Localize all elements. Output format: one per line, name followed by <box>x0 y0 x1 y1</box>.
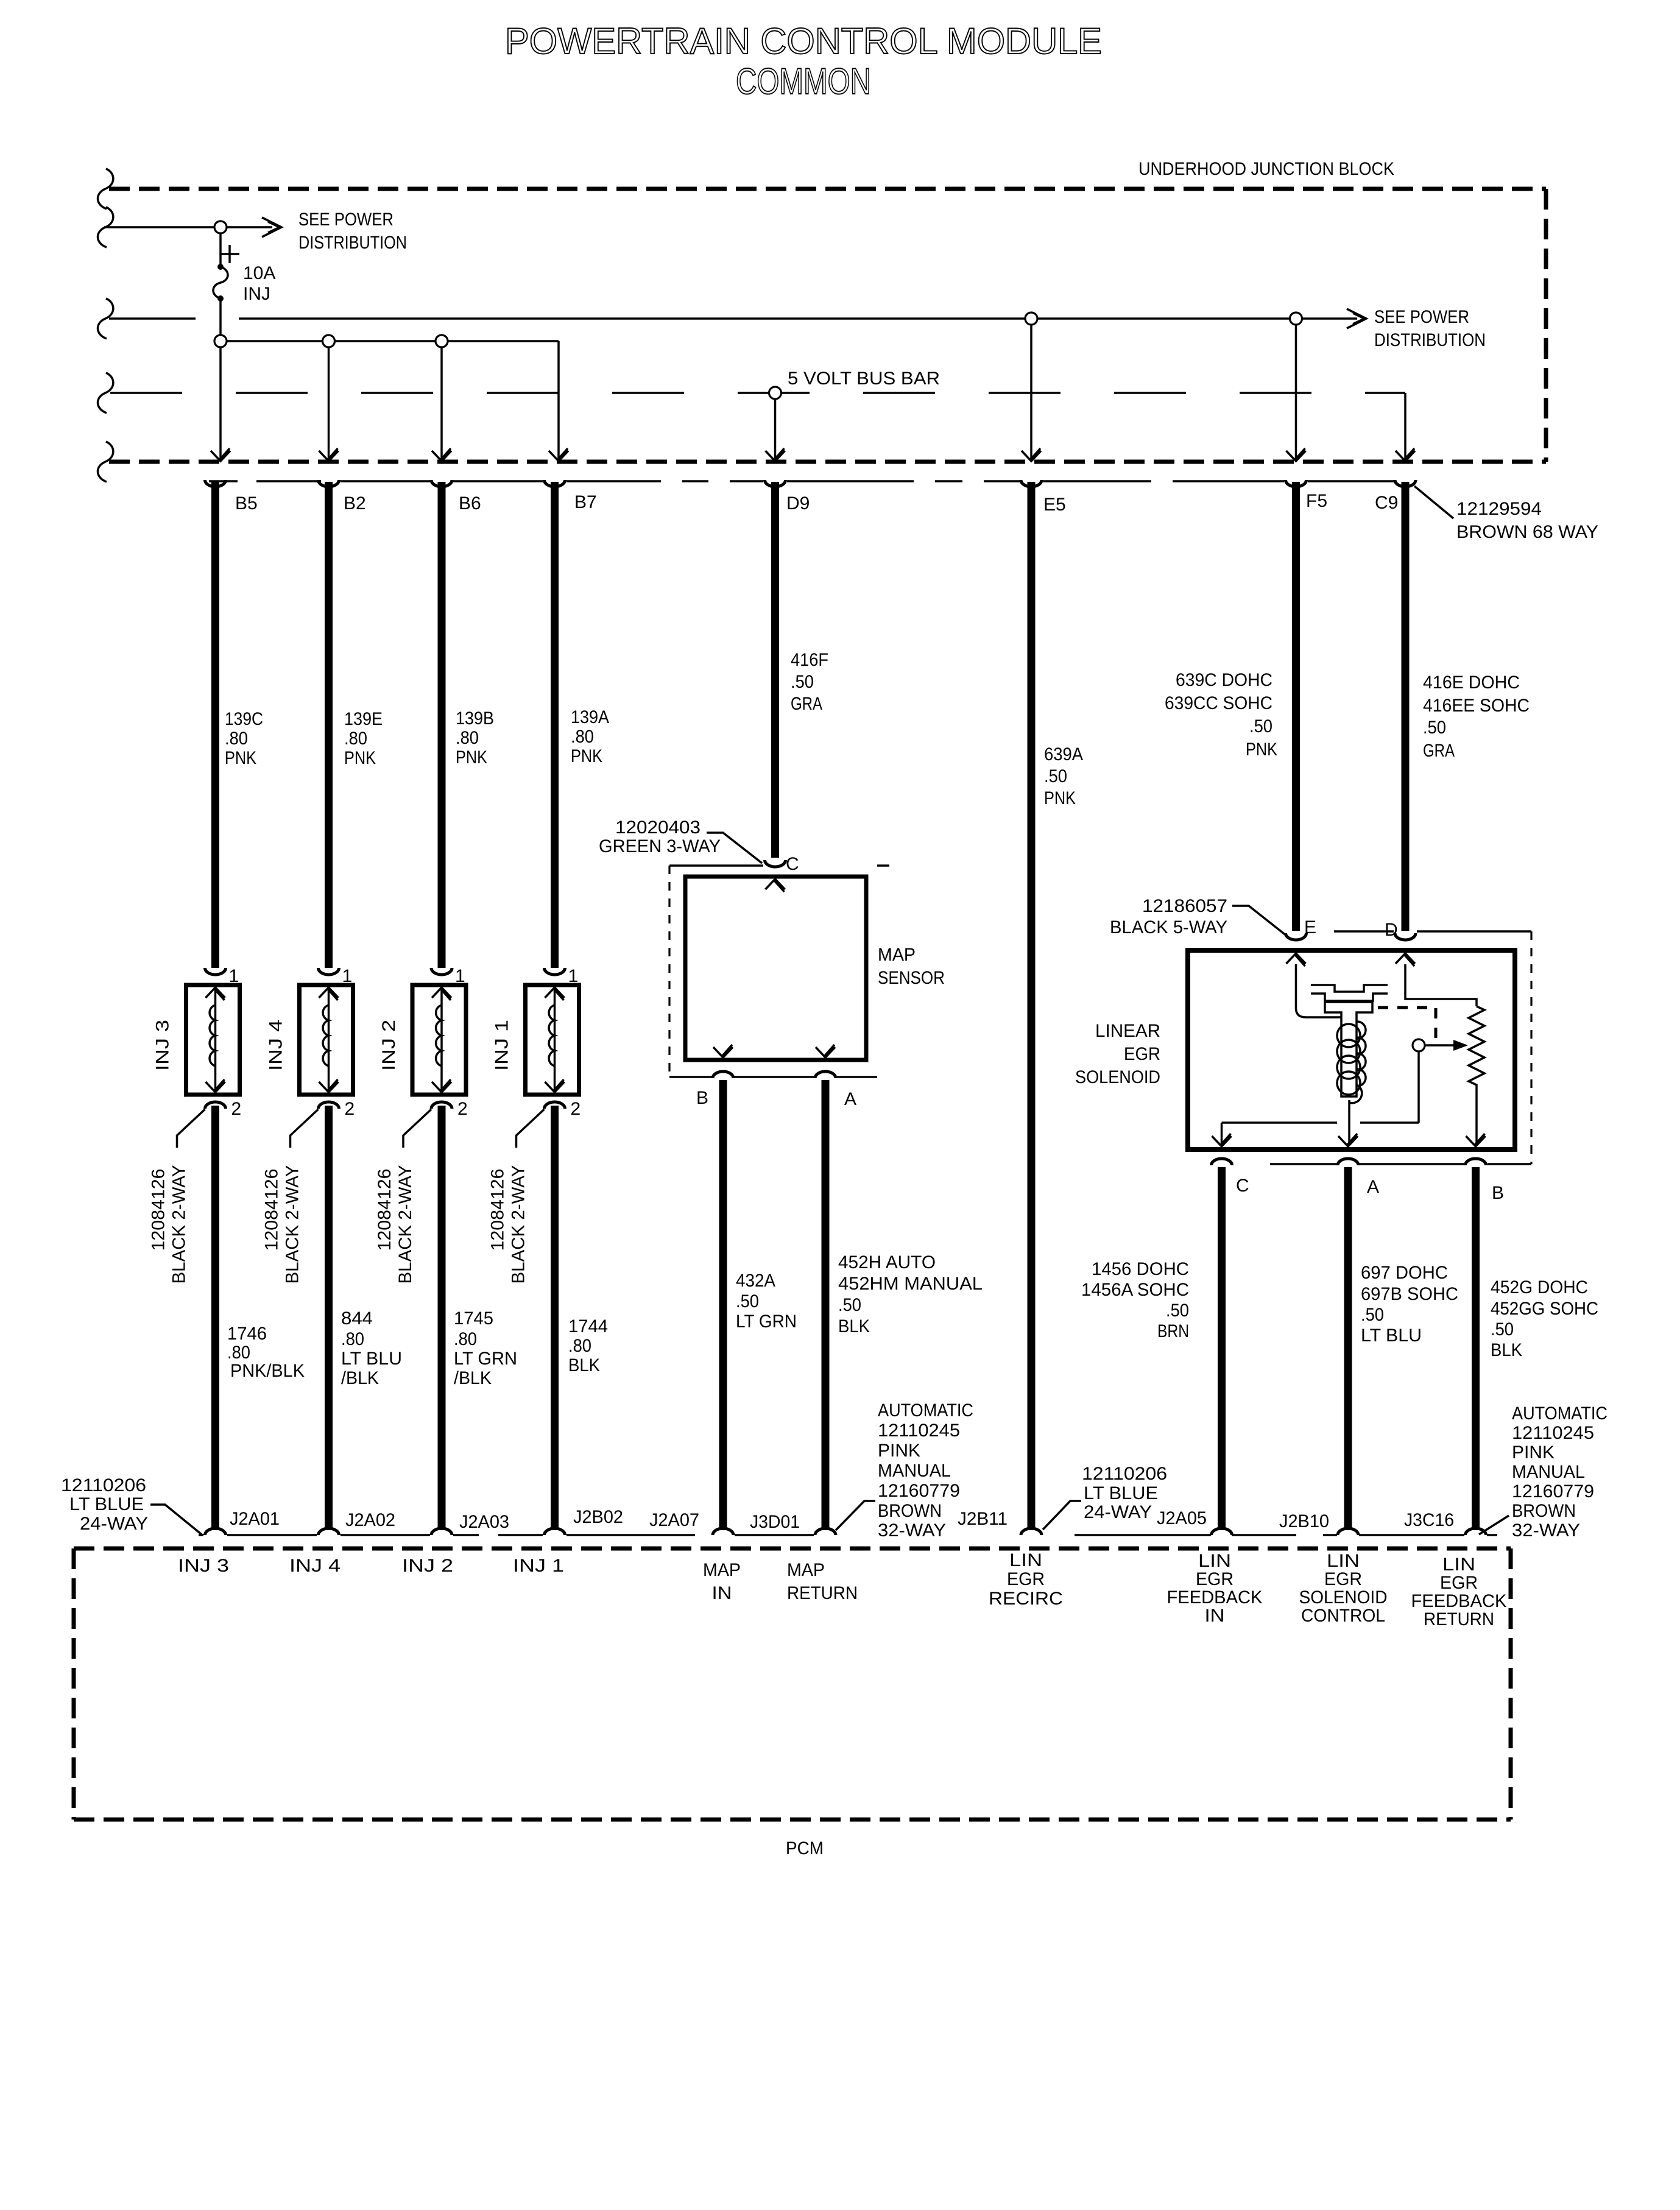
injector INJ 4 terminal 2 <box>319 1102 339 1109</box>
svg-text:416EE SOHC: 416EE SOHC <box>1423 696 1530 716</box>
junction node F5 <box>1290 312 1302 325</box>
leader 24-way connector left <box>150 1505 202 1534</box>
junction node fuse out <box>214 335 227 347</box>
EGR mechanical link dashed <box>1378 1008 1436 1039</box>
svg-text:LIN: LIN <box>1198 1551 1231 1571</box>
svg-text:.80: .80 <box>456 728 479 748</box>
wire INJ 2 to PCM <box>438 1106 446 1530</box>
svg-text:.50: .50 <box>736 1291 759 1312</box>
svg-text:INJ 1: INJ 1 <box>513 1556 564 1576</box>
svg-text:.50: .50 <box>1423 718 1446 738</box>
svg-text:12084126: 12084126 <box>262 1169 282 1251</box>
EGR pintle lower bar <box>1311 994 1388 1001</box>
leader 2-way connector INJ 1 <box>517 1109 545 1148</box>
arrow see power distribution left <box>262 217 281 237</box>
injector INJ 2 terminal 1 <box>431 968 452 975</box>
svg-text:/BLK: /BLK <box>341 1368 379 1388</box>
svg-text:.80: .80 <box>225 729 248 749</box>
leader 5-way connector EGR <box>1232 906 1286 936</box>
svg-text:AUTOMATIC: AUTOMATIC <box>878 1400 973 1421</box>
svg-text:139B: 139B <box>456 708 494 729</box>
injector INJ 1 body <box>526 985 579 1095</box>
EGR feedback wiper <box>1413 1039 1468 1123</box>
wire battery feed <box>104 226 215 228</box>
svg-text:EGR: EGR <box>1324 1569 1362 1589</box>
svg-text:32-WAY: 32-WAY <box>878 1520 946 1541</box>
wire 1456 EGR C to PCM <box>1218 1167 1226 1530</box>
PCM terminal MAP RETURN <box>815 1528 836 1535</box>
terminal B5 <box>205 480 226 487</box>
svg-text:2: 2 <box>457 1099 468 1119</box>
svg-text:RETURN: RETURN <box>1424 1609 1494 1629</box>
svg-text:.80: .80 <box>568 1336 591 1356</box>
terminal C9 <box>1395 480 1416 487</box>
svg-text:BLACK 2-WAY: BLACK 2-WAY <box>509 1165 529 1284</box>
wire D9 drop <box>774 399 777 461</box>
svg-text:697 DOHC: 697 DOHC <box>1361 1263 1448 1283</box>
svg-text:INJ 3: INJ 3 <box>178 1556 229 1576</box>
MAP sensor terminal B <box>713 1071 733 1078</box>
svg-text:F5: F5 <box>1306 491 1327 511</box>
svg-text:12020403: 12020403 <box>615 817 701 838</box>
svg-text:416F: 416F <box>791 650 828 670</box>
svg-text:E: E <box>1304 917 1316 937</box>
svg-text:LIN: LIN <box>1327 1551 1360 1571</box>
wire 139E B2 to INJ4 <box>325 482 333 968</box>
svg-text:452GG SOHC: 452GG SOHC <box>1491 1299 1598 1319</box>
wire 416E C9 to EGR D <box>1402 482 1410 931</box>
arrow see power distribution right <box>1347 309 1366 328</box>
svg-text:12129594: 12129594 <box>1456 499 1542 519</box>
wire break curl ignition bus <box>97 298 113 339</box>
EGR pin E arrow <box>1286 953 1306 964</box>
svg-text:INJ 1: INJ 1 <box>492 1020 512 1071</box>
EGR pintle valve body <box>1325 1002 1372 1096</box>
PCM terminal INJ3 <box>205 1528 226 1535</box>
svg-text:SENSOR: SENSOR <box>878 968 945 988</box>
arrow B5 drop into connector <box>211 451 230 461</box>
svg-text:639C DOHC: 639C DOHC <box>1176 670 1272 690</box>
svg-text:1746: 1746 <box>227 1324 267 1344</box>
MAP sensor pin A arrow <box>816 1047 835 1057</box>
wire 452G EGR B to PCM <box>1472 1167 1480 1530</box>
PCM connector face line <box>199 1534 1497 1536</box>
terminal F5 <box>1286 480 1307 487</box>
wire INJ 3 to PCM <box>211 1106 219 1530</box>
svg-text:24-WAY: 24-WAY <box>1084 1502 1152 1522</box>
svg-text:.50: .50 <box>1249 716 1272 736</box>
EGR terminal A <box>1338 1159 1358 1165</box>
wire ignition bus left segment <box>109 317 196 320</box>
svg-text:J2A02: J2A02 <box>345 1510 395 1530</box>
svg-text:UNDERHOOD JUNCTION BLOCK: UNDERHOOD JUNCTION BLOCK <box>1138 159 1394 179</box>
svg-text:PNK: PNK <box>571 746 602 766</box>
svg-text:.50: .50 <box>838 1295 861 1315</box>
wire break curl 5 volt bus <box>97 373 113 413</box>
injector INJ 3 terminal 2 <box>205 1102 226 1109</box>
injector INJ 4 internal element <box>328 989 330 1090</box>
svg-text:2: 2 <box>571 1099 581 1119</box>
junction node fuse top <box>214 221 227 233</box>
wire 432A MAP B to PCM <box>719 1080 727 1530</box>
svg-text:B2: B2 <box>344 493 366 514</box>
svg-text:RETURN: RETURN <box>787 1583 858 1603</box>
PCM terminal INJ4 <box>319 1528 339 1535</box>
wire 639A E5 to PCM <box>1028 482 1036 1530</box>
svg-text:SEE POWER: SEE POWER <box>298 210 394 230</box>
EGR terminal B <box>1466 1159 1486 1165</box>
svg-text:10A: 10A <box>243 263 275 283</box>
EGR feedback resistor <box>1469 1006 1484 1145</box>
EGR terminal C <box>1212 1159 1232 1165</box>
svg-text:GRA: GRA <box>1423 741 1455 761</box>
svg-text:12084126: 12084126 <box>149 1169 169 1251</box>
svg-text:432A: 432A <box>736 1271 775 1291</box>
arrow F5 drop into connector <box>1286 451 1306 461</box>
arrow B6 drop into connector <box>432 451 451 461</box>
wire F5 drop <box>1295 325 1297 461</box>
svg-text:452G DOHC: 452G DOHC <box>1491 1277 1588 1297</box>
EGR solenoid body <box>1188 950 1515 1149</box>
svg-text:GREEN 3-WAY: GREEN 3-WAY <box>599 836 721 856</box>
svg-text:12110206: 12110206 <box>61 1475 146 1495</box>
svg-text:INJ 4: INJ 4 <box>289 1556 341 1576</box>
svg-text:.50: .50 <box>791 672 814 692</box>
svg-text:D9: D9 <box>786 493 810 514</box>
MAP sensor pin C arrow <box>766 879 785 889</box>
svg-text:BROWN: BROWN <box>878 1501 942 1521</box>
svg-text:BRN: BRN <box>1157 1321 1189 1341</box>
svg-text:MAP: MAP <box>787 1560 825 1580</box>
MAP sensor body <box>685 877 866 1060</box>
svg-text:POWERTRAIN CONTROL MODULE: POWERTRAIN CONTROL MODULE <box>505 21 1102 62</box>
fuse 10A INJ <box>213 233 239 336</box>
junction node B2 <box>323 335 335 347</box>
svg-text:2: 2 <box>231 1099 242 1119</box>
svg-text:12160779: 12160779 <box>878 1481 960 1501</box>
svg-text:J2A03: J2A03 <box>459 1512 509 1532</box>
svg-text:J2A01: J2A01 <box>230 1509 280 1529</box>
svg-text:BLACK 2-WAY: BLACK 2-WAY <box>395 1165 415 1284</box>
svg-text:LT BLU: LT BLU <box>1361 1326 1422 1346</box>
terminal D9 <box>765 480 786 487</box>
MAP sensor pin B arrow <box>713 1047 733 1057</box>
svg-text:1456A SOHC: 1456A SOHC <box>1081 1280 1189 1300</box>
wire 139C B5 to INJ3 <box>211 482 219 968</box>
wire ignition bus right segment <box>239 317 1026 320</box>
svg-text:.80: .80 <box>227 1343 250 1363</box>
injector INJ 3 terminal 1 <box>205 968 226 975</box>
svg-text:LT GRN: LT GRN <box>454 1349 517 1369</box>
injector INJ 1 terminal 1 <box>545 968 565 975</box>
connector face line 68-way <box>209 480 1394 482</box>
injector INJ 3 internal element <box>214 989 217 1090</box>
wire break curl top dashed <box>97 169 113 209</box>
PCM terminal EGR RECIRC <box>1021 1528 1042 1535</box>
svg-text:.80: .80 <box>344 729 367 749</box>
svg-text:B: B <box>696 1088 708 1108</box>
svg-text:639A: 639A <box>1044 744 1083 764</box>
svg-text:12084126: 12084126 <box>488 1169 508 1251</box>
PCM terminal INJ1 <box>545 1528 565 1535</box>
svg-text:B: B <box>1492 1183 1504 1203</box>
svg-text:A: A <box>844 1089 856 1109</box>
svg-text:J2A07: J2A07 <box>649 1510 699 1530</box>
MAP sensor terminal C <box>765 860 786 867</box>
svg-text:MAP: MAP <box>878 945 916 965</box>
PCM terminal INJ2 <box>431 1528 452 1535</box>
arrow E5 drop into connector <box>1022 451 1041 461</box>
EGR pintle upper bar <box>1311 985 1388 992</box>
svg-text:EGR: EGR <box>1440 1573 1478 1593</box>
svg-text:639CC SOHC: 639CC SOHC <box>1165 693 1272 713</box>
terminal B2 <box>319 480 339 487</box>
wire B2 drop <box>328 347 330 461</box>
wire C9 drop <box>1404 393 1406 461</box>
svg-text:PNK: PNK <box>1044 788 1076 808</box>
svg-text:LIN: LIN <box>1009 1550 1042 1570</box>
svg-text:12110245: 12110245 <box>1512 1423 1594 1443</box>
svg-text:MAP: MAP <box>703 1560 741 1580</box>
svg-text:2: 2 <box>345 1099 355 1119</box>
svg-text:LIN: LIN <box>1442 1555 1475 1575</box>
svg-text:J2B02: J2B02 <box>573 1507 623 1527</box>
svg-text:697B SOHC: 697B SOHC <box>1361 1284 1458 1304</box>
svg-text:12110245: 12110245 <box>878 1421 960 1441</box>
svg-text:.80: .80 <box>454 1329 477 1349</box>
terminal B6 <box>431 480 452 487</box>
svg-text:COMMON: COMMON <box>736 61 871 102</box>
svg-text:EGR: EGR <box>1124 1044 1160 1064</box>
PCM terminal EGR FEEDBACK IN <box>1212 1528 1232 1535</box>
svg-text:FEEDBACK: FEEDBACK <box>1411 1591 1507 1611</box>
svg-text:.50: .50 <box>1361 1305 1384 1325</box>
leader 2-way connector INJ 2 <box>403 1109 431 1148</box>
svg-text:12084126: 12084126 <box>375 1169 395 1251</box>
arrow D9 drop into connector <box>766 451 785 461</box>
injector INJ 1 terminal 2 <box>545 1102 565 1109</box>
wire injector feed bus <box>227 340 559 342</box>
svg-text:139C: 139C <box>225 709 263 729</box>
EGR internal wire E to coil <box>1296 964 1341 1017</box>
EGR terminal E <box>1286 933 1307 940</box>
svg-text:D: D <box>1385 920 1398 940</box>
wire 416F D9 to MAP C <box>771 482 779 858</box>
svg-text:IN: IN <box>712 1583 732 1603</box>
wire B5 drop <box>219 347 222 461</box>
svg-text:GRA: GRA <box>791 694 822 714</box>
svg-text:INJ 4: INJ 4 <box>266 1020 286 1071</box>
svg-text:INJ 3: INJ 3 <box>153 1020 173 1071</box>
svg-text:BLACK 2-WAY: BLACK 2-WAY <box>283 1165 303 1284</box>
wire B7 drop <box>557 341 560 461</box>
injector INJ 1 internal element <box>554 989 556 1090</box>
svg-text:452HM MANUAL: 452HM MANUAL <box>838 1274 983 1294</box>
svg-text:LINEAR: LINEAR <box>1095 1021 1160 1041</box>
PCM terminal EGR SOL CONTROL <box>1338 1528 1358 1535</box>
svg-text:FEEDBACK: FEEDBACK <box>1167 1587 1263 1608</box>
svg-text:INJ 2: INJ 2 <box>379 1020 399 1071</box>
injector INJ 2 terminal 2 <box>431 1102 452 1109</box>
svg-text:.80: .80 <box>571 727 594 747</box>
svg-text:5 VOLT BUS BAR: 5 VOLT BUS BAR <box>788 369 940 389</box>
leader 3-way connector MAP <box>707 833 762 863</box>
svg-text:32-WAY: 32-WAY <box>1512 1520 1580 1541</box>
wire 639C F5 to EGR E <box>1292 482 1300 931</box>
wire 139B B6 to INJ2 <box>438 482 446 968</box>
svg-text:MANUAL: MANUAL <box>1512 1462 1585 1482</box>
svg-text:J3D01: J3D01 <box>750 1512 800 1532</box>
injector INJ 3 body <box>186 985 240 1095</box>
junction node D9 <box>769 387 782 399</box>
svg-text:PNK: PNK <box>456 747 487 768</box>
svg-text:1456 DOHC: 1456 DOHC <box>1092 1259 1189 1279</box>
svg-text:12186057: 12186057 <box>1142 896 1227 916</box>
svg-text:DISTRIBUTION: DISTRIBUTION <box>1374 330 1486 350</box>
leader 2-way connector INJ 4 <box>291 1109 319 1148</box>
arrow B7 drop into connector <box>549 451 568 461</box>
underhood junction block dashed box <box>109 189 1546 462</box>
svg-text:24-WAY: 24-WAY <box>80 1514 148 1534</box>
leader 32-way connector right <box>1479 1516 1509 1534</box>
svg-text:PNK/BLK: PNK/BLK <box>230 1361 305 1381</box>
svg-text:B7: B7 <box>574 492 597 512</box>
svg-text:IN: IN <box>1205 1606 1225 1626</box>
svg-text:RECIRC: RECIRC <box>989 1589 1063 1609</box>
svg-text:C: C <box>1236 1176 1249 1196</box>
svg-text:.50: .50 <box>1491 1319 1514 1340</box>
svg-text:PNK: PNK <box>1246 740 1277 760</box>
svg-text:BROWN: BROWN <box>1512 1501 1576 1521</box>
svg-text:1745: 1745 <box>454 1308 493 1329</box>
svg-text:INJ: INJ <box>243 284 270 304</box>
svg-text:C: C <box>786 854 799 874</box>
junction node E5 <box>1025 312 1037 325</box>
svg-text:BLACK 5-WAY: BLACK 5-WAY <box>1110 917 1227 937</box>
wire break curl bottom dashed <box>97 442 113 482</box>
svg-text:SOLENOID: SOLENOID <box>1075 1067 1160 1087</box>
wire B6 drop <box>440 347 443 461</box>
svg-text:DISTRIBUTION: DISTRIBUTION <box>298 233 407 253</box>
leader 24-way connector right <box>1043 1501 1081 1530</box>
svg-text:AUTOMATIC: AUTOMATIC <box>1512 1403 1608 1424</box>
EGR pin C arrow <box>1212 1136 1232 1146</box>
terminal B7 <box>545 480 565 487</box>
EGR pin B arrow <box>1466 1136 1486 1146</box>
wire INJ 1 to PCM <box>551 1106 559 1530</box>
wire INJ 4 to PCM <box>325 1106 333 1530</box>
wire 5 volt bus bar <box>110 392 1405 394</box>
EGR pin D arrow <box>1396 953 1415 964</box>
svg-text:BLK: BLK <box>838 1316 870 1336</box>
svg-text:C9: C9 <box>1375 493 1398 513</box>
EGR pin A arrow <box>1338 1136 1358 1146</box>
svg-text:INJ 2: INJ 2 <box>402 1556 453 1576</box>
terminal E5 <box>1021 480 1042 487</box>
svg-text:PCM: PCM <box>786 1838 824 1859</box>
svg-text:.80: .80 <box>341 1329 364 1349</box>
injector INJ 4 body <box>300 985 353 1095</box>
svg-text:J2B11: J2B11 <box>958 1509 1008 1529</box>
svg-text:.50: .50 <box>1166 1301 1189 1321</box>
wire 452H MAP A to PCM <box>822 1080 830 1530</box>
svg-text:B5: B5 <box>235 493 258 514</box>
svg-text:PNK: PNK <box>344 748 376 768</box>
svg-text:A: A <box>1367 1177 1379 1197</box>
svg-text:LT BLUE: LT BLUE <box>1084 1483 1158 1503</box>
svg-text:EGR: EGR <box>1196 1569 1234 1589</box>
EGR solenoid coil <box>1337 1022 1366 1103</box>
svg-text:/BLK: /BLK <box>454 1368 492 1388</box>
svg-text:MANUAL: MANUAL <box>878 1461 951 1481</box>
svg-text:EGR: EGR <box>1007 1569 1045 1589</box>
svg-text:416E DOHC: 416E DOHC <box>1423 673 1520 693</box>
svg-text:SEE POWER: SEE POWER <box>1374 307 1469 327</box>
arrow B2 drop into connector <box>319 451 339 461</box>
svg-text:J3C16: J3C16 <box>1404 1510 1454 1530</box>
svg-text:PINK: PINK <box>878 1441 920 1461</box>
svg-text:PNK: PNK <box>225 748 256 768</box>
svg-text:BLK: BLK <box>568 1355 600 1375</box>
svg-text:139A: 139A <box>571 707 609 727</box>
svg-text:LT BLUE: LT BLUE <box>69 1494 144 1514</box>
injector INJ 2 internal element <box>440 989 443 1090</box>
svg-text:PINK: PINK <box>1512 1442 1555 1463</box>
svg-text:.50: .50 <box>1044 766 1067 786</box>
svg-text:BLACK 2-WAY: BLACK 2-WAY <box>169 1165 189 1284</box>
arrow C9 drop into connector <box>1396 451 1415 461</box>
svg-text:452H AUTO: 452H AUTO <box>838 1252 936 1273</box>
EGR internal wire wiper to pin C <box>1222 1121 1419 1124</box>
EGR connector bracket top <box>1270 931 1531 1164</box>
svg-text:12110206: 12110206 <box>1082 1464 1167 1484</box>
PCM terminal EGR FEEDBACK RET <box>1466 1528 1486 1535</box>
MAP sensor terminal A <box>815 1071 836 1078</box>
svg-text:1744: 1744 <box>568 1316 608 1336</box>
svg-text:LT BLU: LT BLU <box>341 1349 402 1369</box>
svg-text:844: 844 <box>341 1308 373 1329</box>
EGR terminal D <box>1395 933 1416 940</box>
injector INJ 4 terminal 1 <box>319 968 339 975</box>
wire break curl feed wire <box>97 207 113 247</box>
svg-text:BROWN 68 WAY: BROWN 68 WAY <box>1456 522 1598 542</box>
EGR internal wire D to resistor <box>1405 964 1477 1006</box>
svg-text:12160779: 12160779 <box>1512 1481 1594 1502</box>
PCM terminal MAP IN <box>713 1528 733 1535</box>
svg-text:B6: B6 <box>459 493 481 514</box>
svg-text:E5: E5 <box>1043 495 1066 515</box>
wire E5 drop <box>1030 325 1032 461</box>
svg-text:LT GRN: LT GRN <box>736 1312 797 1332</box>
svg-text:BLK: BLK <box>1491 1340 1522 1360</box>
svg-text:CONTROL: CONTROL <box>1301 1606 1385 1626</box>
junction node B6 <box>436 335 448 347</box>
MAP connector bracket <box>669 866 889 1077</box>
wire 697 EGR A to PCM <box>1344 1167 1352 1530</box>
svg-text:J2B10: J2B10 <box>1279 1511 1329 1531</box>
wire 139A B7 to INJ1 <box>551 482 559 968</box>
svg-text:139E: 139E <box>344 709 383 729</box>
leader 68-way connector <box>1414 486 1453 518</box>
EGR internal wire coil to pin A <box>1348 1100 1350 1145</box>
leader 32-way connector left <box>836 1501 875 1530</box>
wire to see power distribution left <box>227 226 272 228</box>
injector INJ 2 body <box>412 985 466 1095</box>
svg-text:J2A05: J2A05 <box>1157 1508 1207 1528</box>
leader 2-way connector INJ 3 <box>177 1109 205 1148</box>
PCM dashed box <box>74 1548 1511 1820</box>
svg-text:SOLENOID: SOLENOID <box>1299 1587 1388 1608</box>
